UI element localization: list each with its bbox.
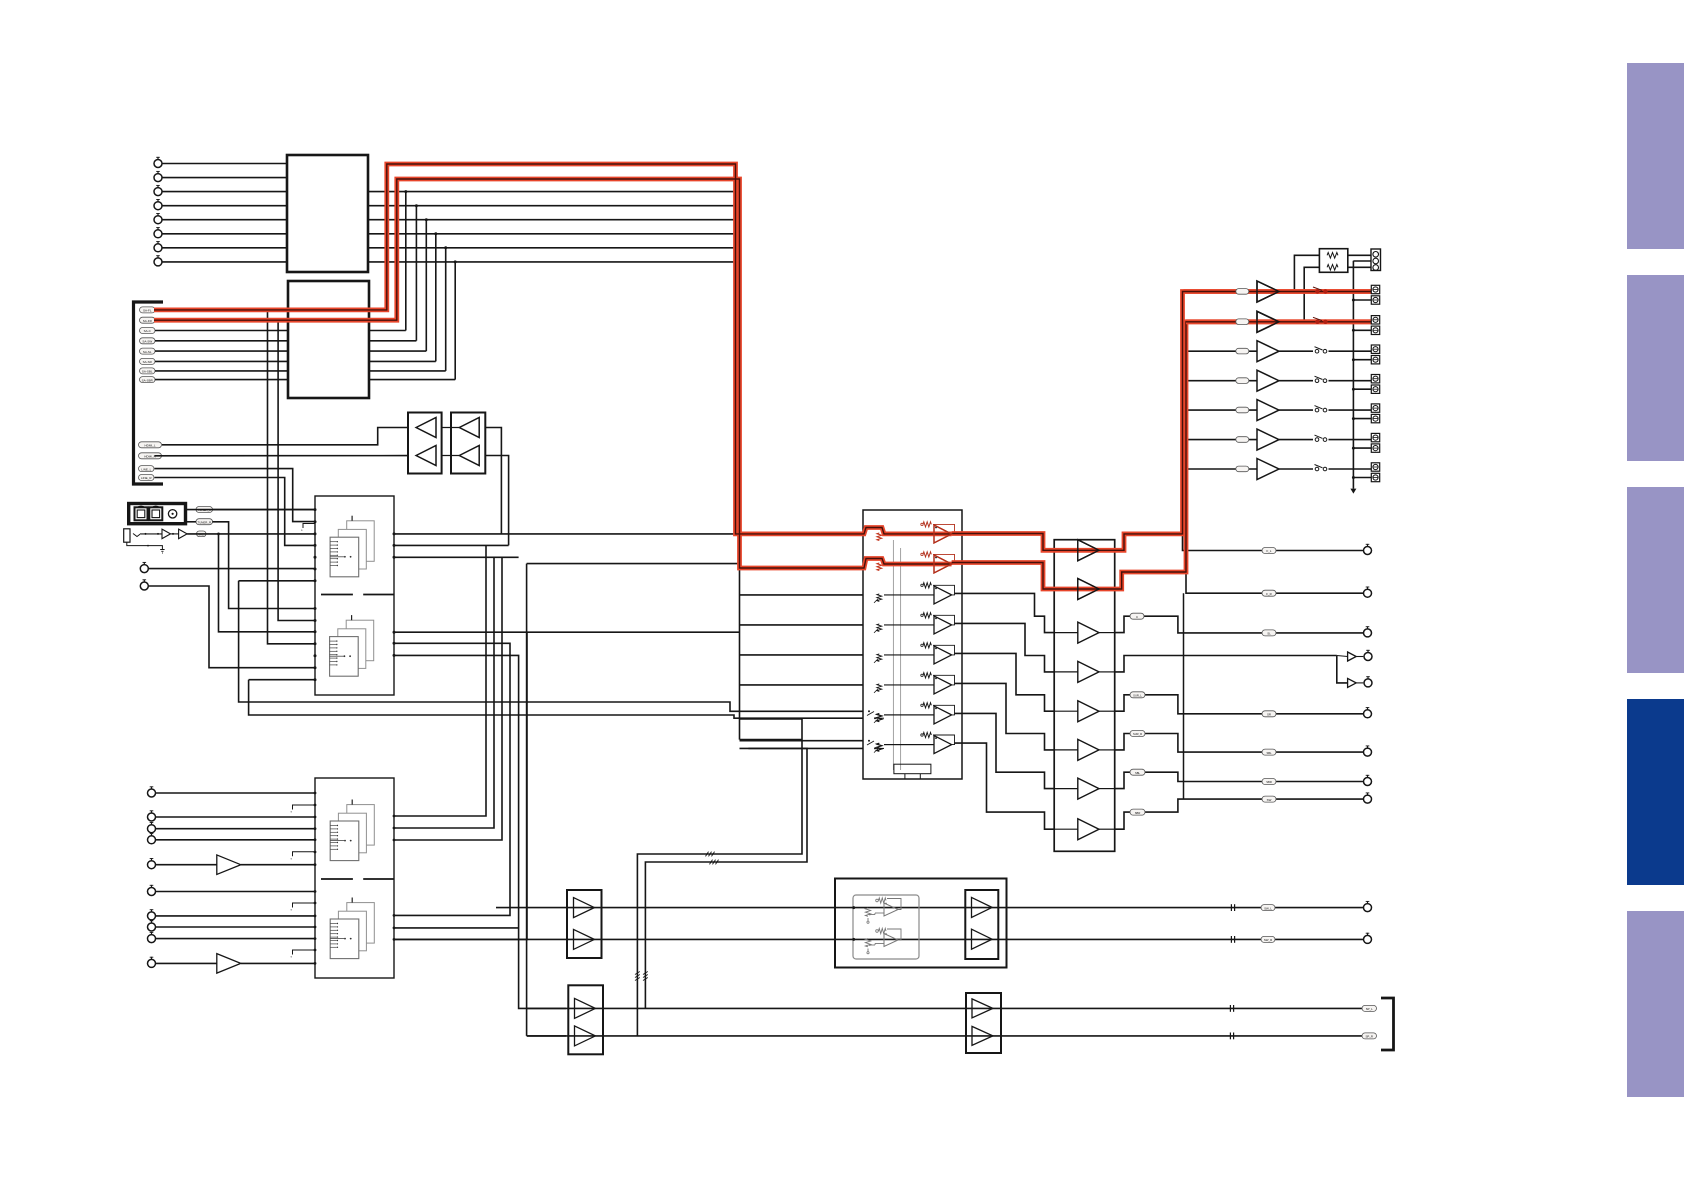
input switch row7 <box>868 710 870 712</box>
net label spk3 <box>1236 348 1249 354</box>
relay switch red L <box>1315 289 1319 293</box>
output jack SUR_R <box>1364 748 1372 756</box>
speaker buffer T4 <box>1257 370 1279 391</box>
power amp A1 <box>1078 540 1099 561</box>
wire volume bus drop A (black under red) <box>735 164 737 535</box>
wire U5 out row8 to PA <box>955 743 1055 829</box>
wire bus bottom turn <box>740 739 803 741</box>
wire A-B row1 <box>442 427 460 429</box>
wire PA row5 internal <box>1054 710 1078 712</box>
wire relay bus tap 6 <box>1353 447 1371 449</box>
wire J9 to DSP <box>149 568 316 570</box>
attenuator resistor R8 <box>877 744 882 752</box>
wire PA row2 internal <box>1054 588 1078 590</box>
wire U2 out row5 <box>369 350 426 352</box>
wire bus drop 4 <box>394 643 510 915</box>
input jack K2 <box>148 813 156 821</box>
speaker buffer T1 outline (over red) <box>1257 281 1279 302</box>
power amp A1 outline (over red) <box>1078 540 1099 561</box>
attenuator resistor R3 <box>877 594 882 602</box>
output jack center <box>1364 629 1372 637</box>
presence buffer L <box>1348 652 1357 661</box>
power amp A8 <box>1078 819 1099 840</box>
phones amp box 1 <box>568 985 603 1054</box>
wire wiper to op-amp row6 <box>884 684 934 686</box>
wire DSP out L (front) <box>394 533 864 535</box>
wire bus tap row6 <box>740 684 864 686</box>
svg-text:C: C <box>1136 615 1138 619</box>
wire phones feed lower <box>645 748 807 1008</box>
power amp A3 <box>1078 622 1099 643</box>
section tab 2 (lavender) <box>1627 275 1684 461</box>
net label SBL <box>1130 769 1145 775</box>
speaker bracket <box>1381 998 1394 1050</box>
output jack sub L <box>1364 904 1372 912</box>
op-amp U5 row4 <box>934 616 952 634</box>
net label HDMI_L <box>139 442 162 448</box>
svg-text:SBR: SBR <box>1135 811 1141 815</box>
wire PA row1 internal <box>1054 549 1078 551</box>
speaker terminal pair 4 <box>1371 375 1379 383</box>
wire bus tap row3 <box>740 594 864 596</box>
speaker buffer T2 outline (over red) <box>1257 311 1279 332</box>
wire J1 to U1 <box>162 163 287 165</box>
wire K2 to U4 <box>156 816 315 818</box>
feedback resistor row4 <box>923 613 931 618</box>
wire U1 out row3 <box>368 191 736 193</box>
red path segment 2 <box>154 179 952 568</box>
wire DSP out row3 <box>394 556 519 558</box>
input jack J10 <box>140 582 148 590</box>
mic jack ground wire <box>127 542 148 545</box>
wire U1 out row6 <box>368 233 736 235</box>
svg-text:SW: SW <box>1267 798 1272 802</box>
speaker terminal pair 3 <box>1371 345 1379 353</box>
mic jack <box>124 529 130 542</box>
output jack front R pre <box>1364 589 1372 597</box>
red path segment 4 <box>952 322 1371 589</box>
input jack J5 <box>154 216 162 224</box>
phones amp 1R <box>575 1026 596 1046</box>
wire PA out SUR_L <box>1115 695 1363 714</box>
input jack K6 <box>148 888 156 896</box>
wire U5 out row4 to PA <box>955 623 1055 672</box>
wire U5 out row5 to PA <box>955 653 1055 711</box>
wire U1 out row8 <box>368 261 736 263</box>
output jack front L pre <box>1364 547 1372 555</box>
wire PA row7 internal <box>1054 788 1078 790</box>
net label SA-FR <box>140 317 156 323</box>
wire J2 to U1 <box>162 177 287 179</box>
attenuator resistor R4 <box>877 624 882 632</box>
wire K10 via buffer <box>156 962 217 964</box>
electronic volume IC U5 <box>863 510 962 779</box>
sub buffer R <box>972 929 993 949</box>
net label LINE_R <box>139 475 155 481</box>
sub preamp L <box>574 898 595 918</box>
svg-text:SA-FR: SA-FR <box>143 319 153 323</box>
wire SA-SL to U2 <box>155 350 288 352</box>
buffer A1 <box>416 418 436 438</box>
red line through speaker buffer T2 <box>1186 319 1371 324</box>
input jack K1 <box>148 789 156 797</box>
speaker buffer T1 <box>1257 281 1279 302</box>
wire speaker feed row7 <box>1184 468 1258 470</box>
wire sub L line <box>496 907 1363 909</box>
DOCK terminal block <box>129 504 186 524</box>
op-amp U5 row1 <box>934 525 952 543</box>
wire SA-SR to U2 <box>155 360 288 362</box>
input jack K4 <box>148 836 156 844</box>
wire K7 to U4 <box>156 915 315 917</box>
svg-text:SP_L: SP_L <box>1366 1007 1373 1011</box>
wire U5 out row6 to PA <box>955 683 1055 750</box>
op-amp U5 row7 <box>934 706 952 724</box>
phones amp 1L <box>575 998 596 1018</box>
svg-text:HDMI_L: HDMI_L <box>144 444 155 448</box>
wire J7 to U1 <box>162 247 287 249</box>
wire selector out row 928 <box>394 927 519 929</box>
power amp A2 <box>1078 579 1099 600</box>
wire SA-FL tap to DSP <box>268 310 316 644</box>
svg-text:LINE_R: LINE_R <box>141 476 152 480</box>
svg-text:SA-SBR: SA-SBR <box>142 378 154 382</box>
relay switch 4 <box>1315 379 1319 383</box>
relay switch 3 <box>1315 349 1319 353</box>
power amp A4 <box>1078 661 1099 682</box>
wire HDMI_R to buffer box <box>155 455 409 457</box>
svg-text:F_L: F_L <box>1267 549 1272 553</box>
op-amp U5 row3 <box>934 586 952 604</box>
wire phones feed upper <box>637 719 802 1036</box>
wire SA-SW to U2 <box>155 340 288 342</box>
wire bus tap row8b <box>740 747 864 749</box>
wire wiper to op-amp row3 <box>884 594 934 596</box>
attenuator box <box>1319 249 1347 273</box>
svg-text:SP_R: SP_R <box>1365 1035 1373 1039</box>
wire headphone feed R <box>527 563 740 565</box>
net label SA-SR <box>140 358 156 364</box>
input jack K9 <box>148 935 156 943</box>
svg-text:SA-SW: SA-SW <box>142 340 152 344</box>
op-amp sub L <box>884 903 898 916</box>
wire HDMI_L to buffer box <box>162 428 408 445</box>
speaker terminal pair red R <box>1371 316 1379 324</box>
wire sub R line <box>394 938 1363 940</box>
net label SBL2 <box>1262 749 1276 755</box>
wire K1 to U4 <box>156 792 315 794</box>
U5 part label box <box>894 764 931 774</box>
wire front L pre-out <box>1183 534 1364 551</box>
svg-text:TUNER_R: TUNER_R <box>197 520 211 524</box>
wire K4 to U4 <box>156 839 315 841</box>
feedback resistor row1 <box>923 522 931 527</box>
svg-text:SA-FL: SA-FL <box>143 309 152 313</box>
pin stub <box>303 524 315 529</box>
output jack sub R <box>1364 935 1372 943</box>
speaker terminal pair 7 <box>1371 463 1379 471</box>
sub preamp box <box>567 890 602 958</box>
op-amp U5 row8 <box>934 736 952 754</box>
svg-text:SBR: SBR <box>1266 780 1272 784</box>
resistor zone R <box>1327 265 1338 271</box>
net label SR2 <box>1262 711 1276 717</box>
wire bus drop 6 <box>394 632 527 939</box>
net label SW1 <box>1261 905 1275 911</box>
wire PA out SUR_R <box>1115 734 1363 753</box>
output jack presence R <box>1364 679 1372 687</box>
red path core 2 <box>154 179 952 568</box>
wire U5 out row7 to PA <box>955 713 1055 788</box>
svg-text:SA-SR: SA-SR <box>143 360 153 364</box>
input jack K10 <box>148 959 156 967</box>
wire J4 to U1 <box>162 205 287 207</box>
svg-text:SBL: SBL <box>1266 751 1272 755</box>
input selector IC U1 <box>287 155 368 272</box>
pin stub <box>293 852 316 857</box>
wire bus drop 3 <box>394 557 502 840</box>
net label spk4 <box>1236 378 1249 384</box>
svg-text:SW_R: SW_R <box>1264 938 1272 942</box>
wire J10 to DSP <box>149 586 316 668</box>
input jack K5 <box>148 861 156 869</box>
wire K8 to U4 <box>156 926 315 928</box>
attenuator resistor red row1 <box>877 533 882 541</box>
attenuator resistor R5 <box>877 654 882 662</box>
wire U2 out row4 <box>369 340 416 342</box>
sub filter box <box>835 879 1007 968</box>
feedback resistor row5 <box>923 643 931 648</box>
wire relay bus tap 4 <box>1353 388 1371 390</box>
wire PA out SBR <box>1115 799 1363 829</box>
input jack J1 <box>154 160 162 168</box>
buffer B1 <box>459 418 479 438</box>
section tab 5 (lavender) <box>1627 911 1684 1097</box>
section tab 1 (lavender) <box>1627 63 1684 249</box>
output jack SUR_L <box>1364 710 1372 718</box>
op-amp U5 row6 <box>934 676 952 694</box>
svg-text:SR: SR <box>1267 713 1271 717</box>
sub preamp R <box>574 929 595 949</box>
wire MIC to DSP <box>187 533 315 535</box>
svg-text:SL: SL <box>1267 632 1271 636</box>
wire K9 to U4 <box>156 938 315 940</box>
net label SA-SW <box>140 338 156 344</box>
svg-text:SUR_L: SUR_L <box>1133 694 1142 698</box>
wire phones R line <box>527 1035 1364 1037</box>
wire zone feed R <box>1304 267 1319 322</box>
phones amp 2L <box>972 999 993 1018</box>
net label SW2b <box>1262 796 1276 802</box>
svg-text:SUR_R: SUR_R <box>1133 732 1142 736</box>
attenuator resistor red row2 <box>877 563 882 571</box>
wire J6 to U1 <box>162 233 287 235</box>
net label F_L <box>1262 548 1276 554</box>
wire U5 out row3 to PA <box>955 593 1055 632</box>
op-amp U5 row2 <box>934 555 952 573</box>
speaker buffer T2 <box>1257 311 1279 332</box>
net label SP_R <box>1362 1033 1377 1039</box>
op-amp U5 row1 outline (over red) <box>934 525 952 543</box>
op-amp U5 row2 outline (over red) <box>934 555 952 573</box>
speaker terminal pair 6 <box>1371 433 1379 441</box>
wire wiper to op-amp row8 <box>884 744 934 746</box>
resistor zone L <box>1327 253 1338 259</box>
net label SW2 <box>1261 936 1275 942</box>
wire volume bus drop B <box>739 179 741 740</box>
wire K6 to U4 <box>156 891 315 893</box>
left connector bracket <box>134 302 164 484</box>
wire SA-C to U2 <box>155 330 288 332</box>
wire zone feed L <box>1294 255 1319 291</box>
pin stub <box>293 805 316 810</box>
wire SA-FR tap to DSP <box>278 320 315 620</box>
section tab 4 (navy, active) <box>1627 699 1684 885</box>
wire wiper to op-amp row7 <box>884 714 934 716</box>
net label front R on red <box>1236 319 1249 325</box>
wire speaker feed row3 <box>1184 350 1258 352</box>
ground arrow <box>1350 489 1356 494</box>
reference rails in U5 <box>892 540 894 770</box>
wire front R pre-out <box>1186 572 1363 593</box>
buffer A2 <box>416 446 436 466</box>
net label HDMI_R <box>139 453 162 459</box>
relay switch 6 <box>1315 438 1319 442</box>
phones amp 2R <box>972 1026 993 1045</box>
net label SUR_L <box>1130 692 1145 698</box>
output jack presence L <box>1364 653 1372 661</box>
wire line feed A <box>239 581 863 712</box>
mic amp 2 <box>179 529 188 539</box>
wire speaker bus vertical <box>1183 292 1185 534</box>
wire zone R to terminal <box>1348 266 1371 268</box>
multi-channel input IC U2 <box>288 281 369 398</box>
wire DSP out row 632 to volume bus <box>394 631 740 633</box>
input jack K7 <box>148 912 156 920</box>
wire T4 out <box>1279 380 1313 382</box>
feedback resistor row6 <box>923 673 931 678</box>
wire K5 via buffer <box>156 864 217 866</box>
zone terminal block <box>1371 249 1381 271</box>
buffer B2 <box>459 446 479 466</box>
pages glyph U4 upper <box>347 805 375 846</box>
feedback resistor row8 <box>923 732 931 737</box>
pages glyph U3 lower <box>346 620 374 661</box>
red path segment 1 <box>154 164 952 534</box>
wire speaker feed row4 <box>1184 380 1258 382</box>
input jack J4 <box>154 202 162 210</box>
output jack SBR <box>1364 795 1372 803</box>
wire relay bus tap 5 <box>1353 418 1371 420</box>
svg-text:SA-C: SA-C <box>144 329 152 333</box>
ground <box>160 550 164 554</box>
DSP IC U3 <box>315 496 394 695</box>
input jack J2 <box>154 174 162 182</box>
op-amp sub R <box>884 934 898 947</box>
power amp A5 <box>1078 701 1099 722</box>
wire speaker feed row6 <box>1184 439 1258 441</box>
wire bus tap row5 <box>740 654 864 656</box>
red line through speaker buffer T1 <box>1184 289 1372 294</box>
speaker terminal pair 5 <box>1371 404 1379 412</box>
input jack J3 <box>154 188 162 196</box>
wire T5 out <box>1279 409 1313 411</box>
wire DSP out row2 <box>394 544 509 546</box>
red path core 1 <box>154 164 952 534</box>
speaker buffer T3 <box>1257 341 1279 362</box>
feedback resistor row2 <box>923 552 931 557</box>
net label TUNER_R <box>196 519 213 525</box>
dashed separator U3 <box>321 594 394 596</box>
wire A-B row2 <box>442 455 460 457</box>
relay switch 7 <box>1315 467 1319 471</box>
wire presence branch R <box>1337 656 1348 683</box>
net label SA-SL <box>140 348 156 354</box>
attenuator resistor R6 <box>877 684 882 692</box>
power amp A6 <box>1078 739 1099 760</box>
attenuator resistor R7 <box>877 714 882 722</box>
wire phones L line <box>527 1007 1364 1009</box>
relay switch 5 <box>1315 408 1319 412</box>
net label SA-FL <box>140 307 156 313</box>
svg-text:SA-SBL: SA-SBL <box>142 370 153 374</box>
capacitor phones L <box>1229 1005 1231 1012</box>
net label spk5 <box>1236 407 1249 413</box>
net label C_OUT <box>1130 613 1144 619</box>
wire J8 to U1 <box>162 261 287 263</box>
wire T7 out <box>1279 468 1313 470</box>
sub buffer box <box>965 890 998 959</box>
input jack K3 <box>148 825 156 833</box>
wire wiper to op-amp row4 <box>884 624 934 626</box>
wire bus drop 2 <box>394 557 494 828</box>
wire SA-SBR to U2 <box>155 379 288 381</box>
net label SA-C <box>140 328 156 334</box>
pages glyph U3 upper <box>347 521 375 562</box>
capacitor sub R <box>1230 936 1232 943</box>
wire bus drop 1 <box>394 545 486 816</box>
wire U2 out row8 <box>369 379 455 381</box>
relay switch red R <box>1315 320 1319 324</box>
feedback resistor row3 <box>923 583 931 588</box>
dashed separator U4 <box>321 878 394 880</box>
net label spk6 <box>1236 437 1249 443</box>
mic amp 1 <box>162 529 171 539</box>
net label SURL2 <box>1262 630 1276 636</box>
wire relay bus tap 7 <box>1353 477 1371 479</box>
svg-text:SA-SL: SA-SL <box>143 350 152 354</box>
input jack J6 <box>154 230 162 238</box>
wire PA row6 internal <box>1054 749 1078 751</box>
red path core 3 <box>952 292 1371 551</box>
wire K3 to U4 <box>156 828 315 830</box>
wire TUNER_L to DSP <box>186 509 316 511</box>
svg-text:SW_L: SW_L <box>1264 906 1272 910</box>
speaker terminal pair red L <box>1371 285 1379 293</box>
wire wiper to op-amp row5 <box>884 654 934 656</box>
phones amp box 2 <box>966 993 1001 1053</box>
capacitor phones R <box>1229 1033 1231 1040</box>
wire TUNER_R to DSP <box>186 521 197 523</box>
wire U1 out row4 <box>368 205 736 207</box>
sub filter inner module <box>853 895 919 959</box>
wire zone mid <box>1353 260 1371 262</box>
buffer box A1/A2 <box>408 413 442 474</box>
feedback resistor row7 <box>923 703 931 708</box>
wire PA row8 internal <box>1054 828 1078 830</box>
pages glyph U4 lower <box>347 903 375 944</box>
speaker buffer T7 <box>1257 459 1279 480</box>
